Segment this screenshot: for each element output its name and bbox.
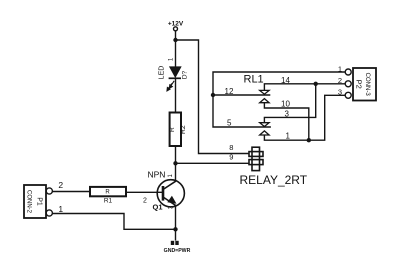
svg-text:R2: R2 — [180, 125, 187, 134]
wire node C to ground — [175, 229, 177, 240]
svg-text:10: 10 — [281, 100, 290, 109]
relay contact 1 down triangle — [260, 90, 269, 94]
svg-text:3: 3 — [285, 110, 290, 119]
svg-text:9: 9 — [229, 153, 233, 162]
node B junction dot — [173, 161, 177, 165]
svg-text:1: 1 — [338, 64, 342, 73]
power +12V terminal circle — [174, 27, 178, 31]
LED light arrows — [167, 81, 174, 91]
svg-text:LED: LED — [159, 66, 166, 80]
connector P1 pin 2 circle — [46, 188, 52, 194]
relay contact 1 up triangle — [260, 99, 269, 103]
svg-text:R: R — [169, 127, 176, 132]
svg-text:GND=PWR: GND=PWR — [164, 248, 191, 254]
LED D? triangle — [170, 67, 181, 78]
transistor Q1 collector diagonal — [164, 181, 176, 189]
transistor Q1 emitter arrow — [167, 196, 176, 204]
wire relay commons to P2 pin1 — [213, 72, 345, 127]
wire node B to relay coil pin 9 — [176, 162, 250, 164]
wire power to node A — [175, 31, 177, 40]
wire node A to relay coil pin 8 — [176, 40, 250, 154]
svg-text:14: 14 — [281, 76, 290, 85]
svg-text:R1: R1 — [104, 198, 113, 205]
wire node A to LED anode — [175, 40, 177, 67]
relay coil core — [252, 147, 260, 170]
svg-text:RL1: RL1 — [244, 74, 264, 86]
svg-text:2: 2 — [338, 76, 342, 85]
relay contact 2 pin 3 wire — [264, 84, 315, 123]
resistor R2 body — [170, 113, 181, 147]
relay contact 2 pin 1 wire — [264, 95, 345, 140]
connector P2 pin 3 circle — [345, 92, 351, 98]
connector P1 pin 1 circle — [46, 210, 52, 216]
ground symbol — [171, 241, 179, 245]
svg-text:NPN: NPN — [148, 170, 166, 180]
connector P2 pin 1 circle — [345, 69, 351, 75]
node E junction dot — [314, 82, 318, 86]
transistor Q1 emitter diagonal — [164, 198, 176, 206]
svg-text:12: 12 — [225, 87, 234, 96]
svg-text:8: 8 — [229, 143, 233, 152]
relay coil terminal 9 — [249, 160, 263, 165]
wire P1 pin2 to R1 — [52, 191, 90, 193]
connector P2 body — [353, 68, 376, 101]
resistor R1 body — [90, 187, 126, 196]
wire R2 to node B — [175, 146, 177, 182]
svg-text:1: 1 — [286, 132, 291, 141]
connector P2 pin 2 circle — [345, 81, 351, 87]
svg-text:CONN-3: CONN-3 — [364, 73, 370, 97]
svg-text:3: 3 — [338, 88, 342, 97]
wire common pin 12 — [213, 94, 270, 96]
transistor Q1 base bar — [162, 186, 165, 201]
svg-text:1: 1 — [58, 204, 63, 214]
relay contact 2 up triangle — [260, 131, 269, 135]
svg-text:CONN-2: CONN-2 — [26, 190, 32, 214]
svg-text:P2: P2 — [354, 80, 363, 89]
node A junction dot — [173, 38, 177, 42]
node D junction dot — [211, 93, 215, 97]
relay coil terminal 8 — [249, 152, 263, 157]
node C junction dot — [173, 227, 177, 231]
wire emitter to node C — [175, 206, 177, 230]
transistor Q1 circle — [157, 180, 184, 207]
svg-text:RELAY_2RT: RELAY_2RT — [240, 173, 308, 187]
svg-text:2: 2 — [143, 198, 147, 205]
svg-text:Q1: Q1 — [153, 203, 163, 212]
relay contact 1 pin 10 wire — [264, 103, 308, 141]
svg-text:R: R — [105, 189, 110, 195]
svg-text:2: 2 — [58, 180, 63, 190]
relay contact 1 pin 14 wire — [264, 84, 345, 91]
svg-text:D?: D? — [182, 70, 189, 79]
connector P1 body — [24, 185, 46, 218]
relay contact 2 down triangle — [260, 123, 269, 127]
wire R1 to base — [126, 191, 163, 193]
wire P1 pin1 to node C — [52, 214, 175, 230]
wire LED cathode to R2 — [175, 78, 177, 112]
LED D? cathode bar — [169, 77, 181, 79]
node F junction dot — [307, 138, 311, 142]
svg-text:P1: P1 — [36, 197, 43, 206]
svg-text:5: 5 — [227, 119, 232, 128]
